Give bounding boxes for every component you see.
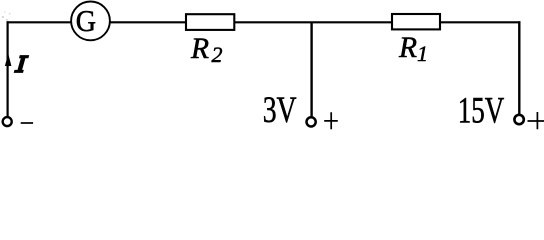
terminal: 15V tap [514, 115, 523, 124]
svg-text:3V: 3V [263, 90, 297, 130]
wire: right vertical branch (15V) [518, 21, 520, 114]
svg-text:G: G [76, 5, 96, 38]
label plus (15V) [528, 112, 544, 129]
resistor R1 body [392, 14, 440, 29]
arrow: current direction I [5, 54, 11, 67]
wire: middle vertical branch (3V) [310, 22, 312, 116]
terminal: 3V tap [307, 117, 316, 126]
terminal: negative terminal (left) [3, 117, 12, 126]
scan speckle noise (decorative) [2, 11, 11, 21]
label plus (3V) [324, 112, 338, 129]
label I [14, 56, 29, 73]
galvanometer U1 circle [71, 2, 110, 41]
wire: top horizontal bus [7, 21, 521, 23]
resistor R2 body [186, 14, 234, 30]
label minus sign [21, 122, 33, 124]
svg-text:15V: 15V [458, 90, 505, 130]
wire: left vertical branch [6, 21, 8, 116]
